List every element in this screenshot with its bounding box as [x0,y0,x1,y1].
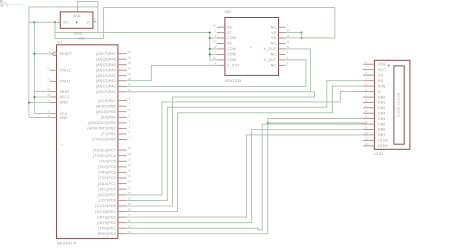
wire VO row [29,21,58,23]
IC1 pin 39 (ADC1)PA1 [96,83,132,89]
svg-text:GND: GND [60,101,69,105]
IC1 pin 24 (TCK)PC2 [98,174,132,180]
svg-text:(ADC0)PA0: (ADC0)PA0 [96,90,116,94]
wire PD5 riser row [127,97,315,206]
LCD1 pin 13 DB6 [363,126,386,132]
IC1 value MEGA32-P [57,241,77,245]
svg-text:(ADC1)PA1: (ADC1)PA1 [96,85,116,89]
svg-text:Z_OUT: Z_OUT [227,64,240,68]
wire Z_OUT to PA2 [127,65,217,80]
junction dot VS lower [300,37,302,39]
IC2 VI stub [93,21,96,23]
wire COM3 link [210,37,217,39]
IC1 pin 33 (ADC7)PA7 [96,50,132,56]
LCD1 pin 9 DB2 [363,104,386,110]
svg-text:(MISO)PB6: (MISO)PB6 [96,104,116,108]
wire X_OUT branch [286,49,311,92]
LCD1 pin 15 LEDA [363,136,389,142]
svg-text:COM: COM [227,47,236,51]
U$1 left pin 8 Z_OUT [214,61,239,67]
svg-text:(TDI)PC5: (TDI)PC5 [99,160,116,164]
IC1 pin 21 (OC2)PD7 [98,191,132,197]
svg-text:(SDA)PC1: (SDA)PC1 [98,182,116,186]
svg-text:VI: VI [87,21,91,25]
svg-text:VCC: VCC [378,68,386,72]
svg-text:(T1)PB1: (T1)PB1 [101,132,116,136]
corner artifact mark [0,0,8,7]
IC1 pin 37 (ADC3)PA3 [96,72,132,78]
svg-text:AVCC: AVCC [60,95,71,99]
U$1 left pin 2 ST [214,29,232,35]
svg-text:(ADC5)PA5: (ADC5)PA5 [96,63,116,67]
microcontroller IC1 body [57,45,118,239]
svg-text:+: + [61,143,63,147]
svg-text:COM: COM [227,53,236,57]
LCD1 pin 2 VCC [363,66,386,72]
LCD1 display window [394,66,404,144]
U$1 left pin 10 COM [213,56,236,62]
svg-text:(T0/XCK)PB0: (T0/XCK)PB0 [92,138,116,142]
U$1 left pin 3 COM [214,34,236,40]
svg-text:DB1: DB1 [378,101,386,105]
wire RESET net [34,53,50,55]
IC1 pin 25 (TMS)PC3 [98,169,132,175]
junction dot RESET [33,53,35,55]
svg-text:(ADC2)PA2: (ADC2)PA2 [96,79,116,83]
IC2 pin number 1 [57,18,59,22]
wire VCC net to pin10 [34,113,50,115]
svg-text:NC: NC [271,64,277,68]
IC2 name [79,36,85,40]
svg-text:(ADC7)PA7: (ADC7)PA7 [96,52,116,56]
svg-text:(TOSC1)PC6: (TOSC1)PC6 [93,154,116,158]
svg-text:RS: RS [378,79,384,83]
svg-text:LEDK: LEDK [378,144,388,148]
junction dot GND31 [28,101,30,103]
wire rail A left drop [28,7,30,118]
wire branch to DB5 row [268,123,367,124]
svg-text:(MOSI)PB5: (MOSI)PB5 [96,110,116,114]
LCD1 pin 4 RS [363,77,384,83]
svg-text:DB0: DB0 [378,95,386,99]
svg-text:(RXD)PD0: (RXD)PD0 [98,232,116,236]
LCD1 pin 7 DB0 [363,93,386,99]
junction dot VO-a [33,21,35,23]
wire rail B riser [103,8,105,39]
LCD1 pin 10 DB3 [363,109,386,115]
IC1 pin 35 (ADC5)PA5 [96,61,132,67]
svg-text:ADXL335: ADXL335 [225,79,242,83]
LCD1 pin 6 E [363,88,381,94]
wire +5V rail B top [104,7,335,9]
svg-text:ST: ST [227,31,232,35]
wire DB4 riser [268,119,363,234]
IC1 pin 23 (SDA)PC1 [98,180,132,186]
svg-text:R/W: R/W [378,84,386,88]
IC1 pin 7 (MISO)PB6 [96,102,131,108]
U$1 right pin 1 NC [271,23,289,29]
IC1 pin 10 VCC [47,110,68,116]
IC1 pin 2 (T1)PB1 [101,130,131,136]
svg-text:(OC2)PD7: (OC2)PD7 [98,193,116,197]
IC1 pin 11 GND [47,114,68,120]
IC1 pin 19 (OC1A)PD5 [95,202,131,208]
IC2 GND pin label [73,14,81,18]
wire PD0 bottom run [127,233,268,235]
svg-text:DB6: DB6 [378,128,386,132]
junction dot ST [209,32,211,34]
IC1 pin 20 (ICP)PD6 [99,197,131,203]
wire GND net to pin31 [29,102,50,104]
U$1 value ADXL335 [225,79,242,83]
IC1 pin 34 (ADC6)PA6 [96,55,132,61]
IC1 pin 18 (OC1B)PD4 [95,208,131,214]
svg-text:U$1: U$1 [225,10,232,14]
LCD1 pin 14 DB7 [363,131,386,137]
wire ADXL VS pin lower [286,37,302,39]
svg-text:(SS)PB4: (SS)PB4 [101,116,116,120]
svg-text:(TDO)PC4: (TDO)PC4 [98,165,116,169]
LCD1 pin 5 R/W [363,82,386,88]
LCD1 pin 16 LEDK [363,142,389,148]
wire +5V rail A top [29,6,98,8]
wire PD7 to E [127,92,363,195]
U$1 origin cross [250,45,252,49]
wire COM6 link [210,53,217,55]
artifact faint line [0,3,23,5]
svg-text:(OC1A)PD5: (OC1A)PD5 [95,204,116,208]
svg-text:DB3: DB3 [378,111,386,115]
IC1 pin 40 (ADC0)PA0 [96,88,132,94]
IC1 origin cross lower [106,216,108,220]
svg-text:VS: VS [271,31,277,35]
wire PD1 to DB5 [127,124,363,230]
svg-text:(AIN0/INT2)PB2: (AIN0/INT2)PB2 [87,127,116,131]
svg-text:(SCK)PB7: (SCK)PB7 [98,99,116,103]
IC2 value 7805L [73,32,84,36]
LCD1 pin 11 DB4 [363,115,386,121]
svg-text:RESET: RESET [60,52,73,56]
LCD1 rotated value text [396,92,400,117]
svg-text:VO: VO [378,73,384,77]
wire +5V vertical to MCU [33,22,35,113]
svg-text:MEGA32-P: MEGA32-P [57,241,77,245]
junction dot COM6 [209,53,211,55]
svg-text:(TOSC2)PC7: (TOSC2)PC7 [93,148,116,152]
U$1 right pin 4 NC [271,51,289,57]
svg-text:XTAL2: XTAL2 [60,69,72,73]
wire AVCC net [34,96,50,98]
wire GND net to pin11 [29,117,50,119]
junction dot VO-b [54,21,56,23]
U$1 left pin 13 NC [213,40,233,46]
wire PA1 to Y_OUT [127,60,306,87]
svg-text:COM: COM [227,58,236,62]
LCD1 pin 8 DB1 [363,98,386,104]
svg-text:IC1: IC1 [57,41,63,45]
svg-text:X_OUT: X_OUT [263,47,276,51]
svg-text:COM: COM [227,36,236,40]
svg-text:DB4: DB4 [378,117,386,121]
IC1 pin 15 (TXD)PD1 [98,224,132,230]
LCD1 pin 1 VSS [363,60,386,66]
LCD1 origin cross [388,64,390,66]
wire AREF net [34,91,50,93]
wire PD6 to RS [127,81,363,201]
IC1 pin 22 (SCL)PC0 [98,185,131,191]
wire rail B right drop [302,8,335,38]
wire VS vertical [301,33,303,38]
IC1 pin 4 (AIN1/OC0)PB3 [88,119,131,125]
svg-text:(TCK)PC2: (TCK)PC2 [98,176,116,180]
svg-text:TUXGR_16X2_R2: TUXGR_16X2_R2 [396,92,400,117]
svg-text:(ADC3)PA3: (ADC3)PA3 [96,74,116,78]
IC1 pin 38 (ADC2)PA2 [96,77,132,83]
wire ST riser [54,22,56,38]
U$1 left pin 6 COM [214,45,236,51]
wire 5V under regulator [55,38,104,40]
svg-text:DB7: DB7 [378,133,386,137]
IC1 pin 13 XTAL1 [47,77,71,83]
IC1 pin 5 (SS)PB4 [101,113,131,119]
IC1 pin 14 (RXD)PD0 [98,230,132,236]
U$1 right pin 9 Y_OUT [263,56,288,62]
svg-text:LEDA: LEDA [378,139,388,143]
svg-text:(TXD)PD1: (TXD)PD1 [98,226,116,230]
IC1 pin 28 (TOSC1)PC6 [93,152,132,158]
svg-text:VSS: VSS [378,62,386,66]
IC2 VO pin label [63,21,68,25]
junction dot E branch [267,122,269,124]
svg-text:GND: GND [73,14,81,18]
wire COM5 link [210,48,217,50]
svg-text:IC2: IC2 [79,36,85,40]
wire ADXL VS pin upper [286,32,302,34]
IC1 pin 16 (INT0)PD2 [97,219,131,225]
junction dot AVCC [33,96,35,98]
wire long ST/COM net [55,32,210,34]
wire PD4 to R/W [127,86,363,212]
accelerometer U$1 body [225,18,279,76]
IC1 origin cross upper [61,143,63,147]
svg-text:(AIN1/OC0)PB3: (AIN1/OC0)PB3 [88,121,116,125]
svg-text:NC: NC [271,53,277,57]
IC1 pin 36 (ADC4)PA4 [96,66,132,72]
IC1 pin 31 GND [47,99,68,105]
U$1 left pin 16 NC [213,23,233,29]
U$1 left pin 7 COM [214,51,236,57]
LCD1 name [374,152,384,156]
IC1 pin 3 (AIN0/INT2)PB2 [87,125,130,131]
IC1 pin 9 RESET [49,50,73,56]
IC1 pin 30 AVCC [47,93,70,99]
U$1 right pin 11 NC [271,40,290,46]
svg-text:DB2: DB2 [378,106,386,110]
svg-text:VO: VO [63,21,68,25]
LCD1 pin 12 DB5 [363,120,386,126]
svg-text:NC: NC [227,25,233,29]
svg-text:NC: NC [227,42,233,46]
LCD connector LCD1 body [374,60,410,149]
IC1 pin 17 (INT1)PD3 [97,213,131,219]
junction dot VS upper [300,31,302,33]
IC1 pin 32 AREF [47,88,69,94]
svg-text:(ADC6)PA6: (ADC6)PA6 [96,57,116,61]
junction dot COM5 [209,48,211,50]
LCD1 pin 3 VO [363,71,384,77]
svg-text:(OC1B)PD4: (OC1B)PD4 [95,210,116,214]
svg-text:E: E [378,90,381,94]
voltage regulator IC2 body [60,12,93,28]
svg-text:GND: GND [60,116,69,120]
U$1 right pin 14 VS [271,29,290,35]
svg-text:+: + [250,45,252,49]
IC2 pin number 3 [94,17,96,21]
svg-text:XTAL1: XTAL1 [60,80,72,84]
svg-text:(INT1)PD3: (INT1)PD3 [97,215,116,219]
svg-text:AREF: AREF [60,90,70,94]
svg-text:7805L: 7805L [73,32,84,36]
IC1 pin 29 (TOSC2)PC7 [93,146,132,152]
svg-text:(ICP)PD6: (ICP)PD6 [99,199,116,203]
wire PD3 to DB7 [127,135,363,217]
IC1 pin 12 XTAL2 [47,66,71,72]
svg-text:LCD1: LCD1 [374,152,384,156]
IC1 pin 6 (MOSI)PB5 [96,108,131,114]
U$1 right pin 5 NC [271,61,289,67]
svg-text:DB5: DB5 [378,122,386,126]
U$1 right pin 12 X_OUT [263,45,290,51]
IC2 VO stub [57,21,60,23]
wire PD2 to DB6 [127,130,363,223]
svg-text:(TMS)PC3: (TMS)PC3 [98,171,116,175]
wire COM chain vertical [209,33,211,60]
svg-text:NC: NC [271,25,277,29]
svg-text:Y_OUT: Y_OUT [263,58,276,62]
wire regulator GND loop [78,2,98,33]
svg-text:VS: VS [271,36,277,40]
IC1 pin 27 (TDI)PC5 [99,157,131,163]
svg-text:(SCL)PC0: (SCL)PC0 [98,187,116,191]
IC2 origin dot [76,22,78,24]
U$1 right pin 15 VS [271,34,290,40]
svg-text:NC: NC [271,42,277,46]
wire PA0 jog to PD5 net [127,92,315,97]
IC1 pin 8 (SCK)PB7 [98,97,131,103]
svg-text:(ADC4)PA4: (ADC4)PA4 [96,68,116,72]
IC1 pin 1 (T0/XCK)PB0 [92,136,131,142]
IC1 pin 26 (TDO)PC4 [98,163,132,169]
svg-text:(INT0)PD2: (INT0)PD2 [97,221,116,225]
IC2 VI pin label [87,21,91,25]
junction dot COM3 [209,37,211,39]
U$1 name [225,10,232,14]
wire COM7 link [210,59,217,61]
IC1 name [57,41,63,45]
